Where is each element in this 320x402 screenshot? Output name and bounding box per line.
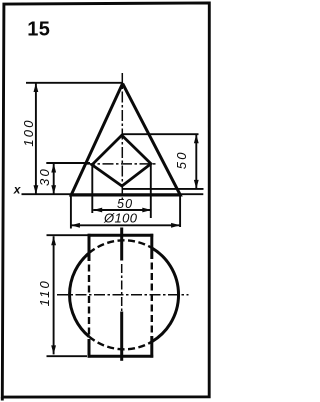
extension line from square top vertex (for right 50 dim) (123, 133, 199, 135)
prism rectangle: bottom edge (88, 355, 154, 358)
prism rectangle: left side solid top (88, 234, 91, 261)
svg-text:50: 50 (117, 197, 133, 211)
svg-text:50: 50 (174, 150, 189, 169)
svg-text:30: 30 (37, 167, 52, 186)
base circle (top view): hidden top arc (89, 240, 152, 253)
square hole outline (front view, rotated square) (92, 135, 151, 186)
cone triangle outline (front view) (71, 84, 180, 196)
svg-text:15: 15 (27, 19, 50, 41)
svg-text:Ø100: Ø100 (103, 211, 138, 226)
extension line from square bottom vertex (for right 50 dim) (123, 188, 204, 190)
dimension diameter 100 line (71, 224, 180, 226)
extension line below right square vertex (150, 165, 152, 218)
svg-text:x: x (13, 183, 22, 197)
dimension 110 line (53, 236, 55, 354)
dimension 50 right line (195, 134, 197, 189)
prism rectangle: right side hidden (151, 263, 153, 334)
top view horizontal centerline (57, 294, 189, 296)
extension line below left base corner (70, 196, 72, 229)
prism rectangle (top view): top edge (88, 234, 154, 237)
dimension 50 bottom line (93, 209, 151, 211)
extension line below right base corner (179, 196, 181, 228)
hole axis centerline (front view) (84, 163, 156, 165)
base circle (top view): hidden bottom arc (89, 337, 152, 350)
border frame (2, 3, 209, 397)
base circle (top view): solid left arc (70, 253, 89, 336)
top view vertical center: solid ridge bottom (120, 312, 123, 361)
top view vertical center: solid ridge top (120, 228, 123, 261)
x-axis line (22, 193, 204, 195)
svg-text:100: 100 (21, 118, 36, 146)
base circle (top view): solid right arc (152, 248, 179, 342)
extension line from apex (for 100 dim) (26, 82, 122, 84)
svg-text:110: 110 (37, 279, 52, 306)
extension line for 30 dim (hole axis level) (46, 162, 90, 164)
cone centerline (front view) (121, 73, 123, 200)
top view vertical centerline middle (121, 264, 123, 312)
top view: 110 dimension extension top (47, 234, 89, 236)
dimension 30 line (53, 164, 55, 195)
extension line below left square vertex (91, 166, 93, 214)
dimension 100 line (35, 83, 37, 194)
frame left lower overshoot (1, 397, 4, 400)
prism rectangle: right side solid bottom (150, 336, 153, 358)
prism rectangle: left side hidden (88, 265, 90, 337)
top view: 110 dimension extension bottom (47, 355, 88, 357)
prism rectangle: left side solid bottom (88, 339, 91, 358)
prism rectangle: right side solid top (150, 234, 153, 259)
